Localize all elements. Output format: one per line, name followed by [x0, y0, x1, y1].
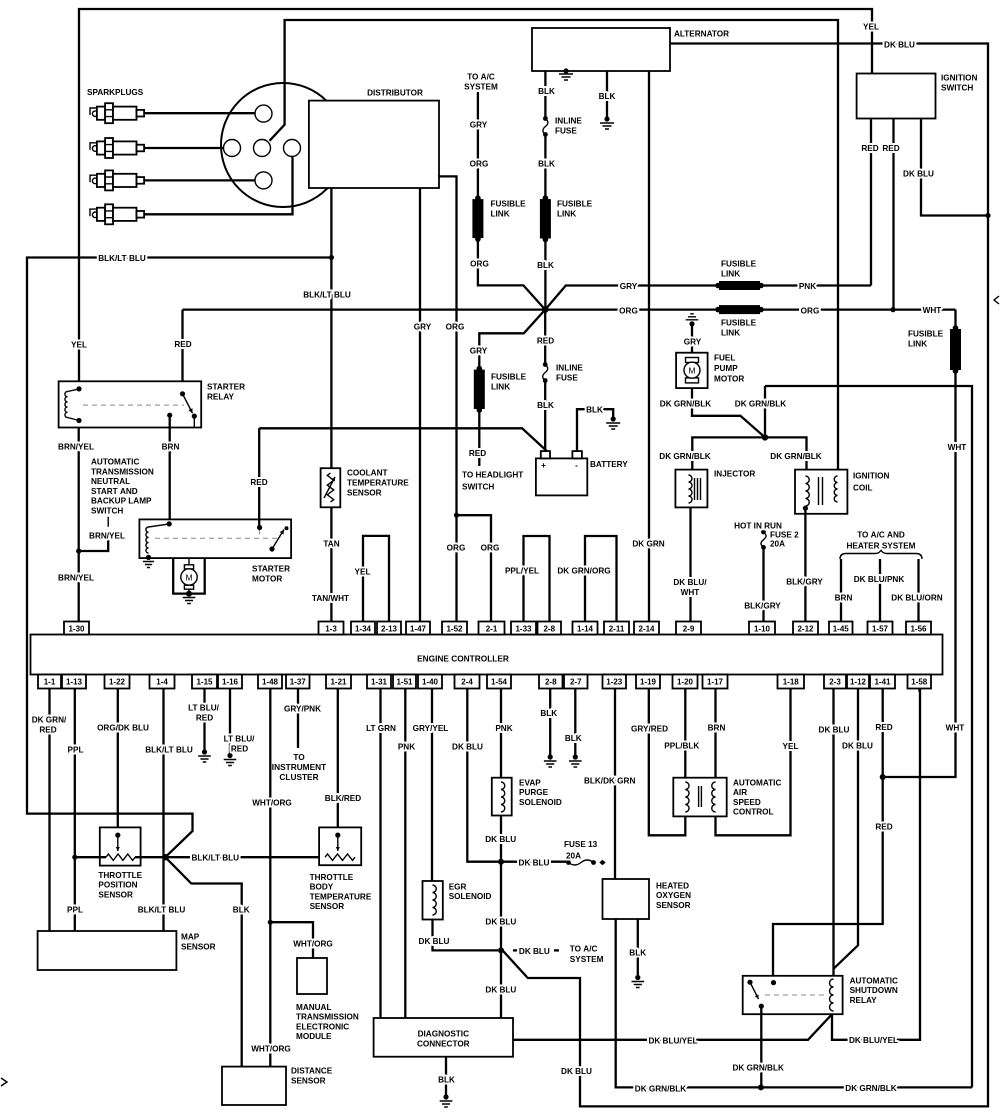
label: wire DK GRN/BLK junction to ignition coil — [770, 452, 821, 461]
label: wire BLK TPS junction to distance sensor — [233, 906, 250, 915]
label: wire BLK/LT BLU 1-4 to junction and MAP sensor — [138, 746, 193, 915]
fusible link (GRY headlight) — [474, 366, 485, 413]
label: wire RED X junction to battery positive — [537, 337, 554, 411]
wire PPL 1-13 to MAP sensor — [72, 689, 77, 932]
fusible link (PNK) — [715, 281, 764, 290]
svg-text:GRY/PNK: GRY/PNK — [284, 705, 321, 714]
svg-text:DK BLU: DK BLU — [519, 947, 550, 956]
label: wire DK BLU/WHT injector to 2-9 — [673, 578, 707, 597]
svg-text:DK GRN/: DK GRN/ — [32, 716, 67, 725]
starter relay dashed link — [83, 404, 184, 406]
svg-text:BRN/YEL: BRN/YEL — [58, 443, 94, 452]
svg-text:BLK: BLK — [537, 401, 554, 410]
svg-text:ORG: ORG — [470, 160, 489, 169]
label: wire BLK/LT BLU TPS to throttle body temp sensor — [191, 853, 239, 862]
svg-text:SOLENOID: SOLENOID — [519, 798, 562, 807]
label: wire DK BLU/PNK to 1-57 — [854, 575, 905, 584]
wire ignition coil secondary to distributor center tower — [270, 20, 839, 478]
svg-text:YEL: YEL — [863, 23, 879, 32]
svg-text:TEMPERATURE: TEMPERATURE — [347, 479, 409, 488]
label: connector pin 1-18 (bottom) — [783, 678, 800, 687]
wire DK BLU alternator to right rail and bottom to diagnostic connector — [503, 44, 988, 1107]
svg-text:1-45: 1-45 — [833, 625, 850, 634]
svg-text:1-40: 1-40 — [422, 678, 439, 687]
wire BLK/DK GRN 1-23 to heated oxygen sensor — [614, 689, 616, 880]
wire BLK oxygen sensor to ground — [637, 919, 639, 975]
svg-text:DK BLU: DK BLU — [419, 937, 450, 946]
svg-text:2-12: 2-12 — [797, 625, 814, 634]
svg-text:LINK: LINK — [908, 340, 927, 349]
diagnostic connector — [374, 1018, 513, 1057]
svg-text:FUSE: FUSE — [556, 374, 578, 383]
injector — [675, 470, 707, 508]
svg-text:RED: RED — [196, 714, 213, 723]
svg-text:RED: RED — [174, 340, 191, 349]
connector pin 1-45 (top) — [829, 622, 853, 635]
label: ignition coil — [853, 472, 889, 493]
svg-text:AUTOMATIC: AUTOMATIC — [733, 779, 781, 788]
svg-text:1-30: 1-30 — [68, 625, 85, 634]
label: wire GRY diagonal down to headlight fusible link — [462, 347, 523, 492]
svg-text:BLK: BLK — [537, 261, 554, 270]
label: starter motor body — [185, 573, 192, 583]
svg-text:YEL: YEL — [355, 568, 371, 577]
connector pin 1-57 (top) — [868, 622, 893, 635]
svg-text:M: M — [185, 573, 192, 583]
svg-text:EVAP: EVAP — [519, 779, 541, 788]
label: wire DK BLU junction down to A/C junction — [485, 918, 516, 927]
label: wire DK GRN/BLK bottom line to heated oxygen sensor — [635, 1084, 897, 1094]
label: throttle body temperature sensor — [310, 873, 372, 911]
wire DK BLU/ORN to 1-56 — [917, 559, 919, 622]
label: wire WHT/ORG 1-48 to distance sensor — [251, 799, 292, 1054]
svg-text:DK BLU/: DK BLU/ — [673, 578, 707, 587]
label: connector pin 1-19 (bottom) — [640, 678, 657, 687]
svg-text:SOLENOID: SOLENOID — [449, 892, 492, 901]
wire BRN starter relay to starter motor — [169, 415, 171, 524]
label: connector pin 1-54 (bottom) — [491, 678, 508, 687]
svg-text:ORG: ORG — [619, 307, 638, 316]
svg-text:DK GRN/BLK: DK GRN/BLK — [845, 1084, 896, 1093]
label: wire WHT fusible link down right side to 1-41 RED junction — [946, 443, 967, 733]
label: map sensor — [181, 933, 216, 952]
label: wire ORG distributor to 1-52 and 2-1 — [446, 323, 500, 553]
wire DK GRN/BLK junction to injector — [692, 437, 765, 469]
label: wire RED to starter relay switch — [174, 340, 191, 349]
label: wire DK BLU/YEL diagnostic connector to automatic shutdown relay — [648, 1036, 898, 1046]
svg-text:BLK: BLK — [538, 87, 555, 96]
svg-text:PNK: PNK — [799, 282, 816, 291]
svg-text:AIR: AIR — [733, 788, 747, 797]
label: fuse 13 — [519, 840, 598, 868]
svg-text:HEATER SYSTEM: HEATER SYSTEM — [847, 542, 916, 551]
label: connector pin 1-3 (top) — [325, 625, 337, 634]
label: inline fuse (battery feed) — [556, 364, 583, 383]
label: wire LT BLU/RED 1-16 to ground — [224, 735, 255, 754]
label: wire YEL 1-18 to air speed control — [783, 742, 799, 751]
svg-text:SENSOR: SENSOR — [310, 902, 345, 911]
label: wire BRN 1-17 to air speed control — [708, 724, 726, 733]
svg-text:1-15: 1-15 — [196, 678, 213, 687]
node DK BLU fuse13 junction — [498, 859, 504, 865]
svg-text:1-31: 1-31 — [371, 678, 388, 687]
wire DK BLU 2-3 to shutdown relay coil — [832, 689, 834, 981]
connector pin 1-22 (bottom) — [105, 675, 130, 689]
wire DK GRN/ORG bridge 1-14 2-11 — [585, 536, 617, 622]
wire YEL 1-18 to air speed control — [716, 689, 791, 836]
wire BLK/LT BLU distributor to coolant sensor and 1-3 — [329, 188, 334, 622]
label: wire LT GRN 1-31 to diagnostic connector — [366, 724, 396, 733]
ground alternator BLK — [600, 116, 614, 129]
svg-text:2-11: 2-11 — [609, 625, 625, 634]
svg-text:BRN: BRN — [708, 724, 726, 733]
label: connector pin 2-13 (top) — [381, 625, 398, 634]
wire GRY/RED 1-19 to air speed control — [649, 689, 686, 836]
svg-text:SENSOR: SENSOR — [181, 943, 216, 952]
svg-text:COIL: COIL — [853, 484, 873, 493]
label: connector pin 1-30 (top) — [68, 625, 85, 634]
svg-text:DK BLU: DK BLU — [903, 170, 934, 179]
svg-text:2-13: 2-13 — [381, 625, 398, 634]
svg-text:BRN: BRN — [835, 594, 853, 603]
svg-text:DK BLU: DK BLU — [452, 743, 483, 752]
to A/C and heater system bracket — [840, 550, 922, 560]
label: wire BLK/GRY fuse 2 to 1-10 — [744, 602, 781, 611]
label: wire BLK oxygen sensor to ground — [629, 949, 646, 958]
label: wire ORG/DK BLU 1-22 to TPS wiper — [97, 724, 149, 733]
svg-text:HOT IN RUN: HOT IN RUN — [734, 522, 782, 531]
svg-text:INSTRUMENT: INSTRUMENT — [272, 762, 326, 772]
svg-text:FUSE 13: FUSE 13 — [564, 840, 598, 849]
label: connector pin 1-4 (bottom) — [156, 678, 168, 687]
svg-text:2-4: 2-4 — [461, 678, 473, 687]
svg-text:DK GRN/BLK: DK GRN/BLK — [735, 400, 786, 409]
label: wire BLK/LT BLU branch to left rail — [98, 254, 146, 263]
svg-text:HEATED: HEATED — [656, 882, 689, 891]
edge mark right — [994, 296, 999, 304]
label: wire DK BLU 2-3 to shutdown relay coil — [819, 726, 850, 735]
label: wire BLK 2-7 to ground — [565, 734, 582, 743]
label: starter motor box — [252, 565, 290, 584]
svg-text:WHT/ORG: WHT/ORG — [293, 940, 333, 949]
wire ORG/DK BLU 1-22 to TPS wiper — [117, 689, 119, 836]
svg-text:DK BLU: DK BLU — [519, 859, 550, 868]
label: wire BLK battery negative to ground — [586, 406, 603, 415]
svg-text:1-52: 1-52 — [446, 625, 463, 634]
svg-text:SYSTEM: SYSTEM — [570, 955, 604, 964]
fusible link (ORG) — [715, 305, 764, 314]
wire GRY fuel pump ground — [691, 326, 693, 353]
label: wire PPL/YEL bridge 1-33 2-8 — [505, 567, 539, 576]
svg-text:WHT: WHT — [948, 443, 967, 452]
connector pin 2-8 (top) — [538, 622, 562, 635]
label: wire GRY diagonal branch up to A/C system — [464, 73, 498, 269]
svg-text:LINK: LINK — [557, 210, 576, 219]
label: wire DK BLU EGR to A/C junction — [419, 937, 450, 946]
svg-text:BACKUP LAMP: BACKUP LAMP — [91, 497, 152, 506]
wire DK BLU junction down to A/C junction — [500, 862, 502, 951]
fusible link (BLK) — [540, 195, 551, 242]
svg-text:TO A/C AND: TO A/C AND — [857, 531, 905, 540]
label: wire PPL/BLK 1-20 to air speed control — [664, 742, 699, 751]
svg-text:AUTOMATIC: AUTOMATIC — [91, 458, 139, 467]
connector pin 1-54 (bottom) — [487, 675, 511, 689]
label: wire GRY/PNK 1-37 to instrument cluster — [272, 705, 326, 783]
svg-text:DISTANCE: DISTANCE — [291, 1067, 333, 1076]
connector pin 1-13 (bottom) — [62, 675, 86, 689]
svg-text:TEMPERATURE: TEMPERATURE — [310, 892, 372, 901]
svg-text:1-47: 1-47 — [410, 625, 427, 634]
label: automatic transmission neutral start switch stub — [89, 458, 154, 541]
ground alternator — [559, 68, 573, 80]
svg-text:RED: RED — [875, 823, 892, 832]
svg-text:FUSIBLE: FUSIBLE — [721, 260, 757, 269]
connector pin 1-34 (top) — [351, 622, 375, 635]
svg-text:RED: RED — [231, 745, 248, 754]
svg-text:RED: RED — [882, 144, 899, 153]
svg-text:MODULE: MODULE — [296, 1032, 332, 1041]
svg-text:PPL: PPL — [68, 746, 84, 755]
svg-text:DK BLU: DK BLU — [819, 726, 850, 735]
svg-text:DK GRN/BLK: DK GRN/BLK — [770, 452, 821, 461]
svg-text:2-9: 2-9 — [683, 625, 695, 634]
svg-text:FUSIBLE: FUSIBLE — [491, 200, 527, 209]
svg-text:BLK: BLK — [438, 1076, 455, 1085]
label: node DK GRN/BLK junction — [735, 400, 786, 409]
svg-text:MOTOR: MOTOR — [252, 575, 282, 584]
svg-text:2-1: 2-1 — [486, 625, 498, 634]
svg-text:THROTTLE: THROTTLE — [98, 871, 142, 880]
label: wire RED battery to starter motor switch — [250, 478, 267, 487]
wire PPL/BLK 1-20 to air speed control — [684, 689, 686, 783]
distributor tower bottom — [255, 172, 272, 189]
svg-text:PNK: PNK — [495, 724, 512, 733]
svg-text:START AND: START AND — [91, 487, 138, 496]
svg-text:WHT: WHT — [681, 588, 700, 597]
wire battery positive feed — [259, 428, 547, 451]
svg-text:DK BLU: DK BLU — [485, 986, 516, 995]
svg-text:TO A/C: TO A/C — [570, 945, 598, 954]
label: connector pin 2-11 (top) — [609, 625, 625, 634]
wire BLK/LT BLU branch to left rail — [27, 258, 331, 858]
svg-text:TAN: TAN — [323, 540, 339, 549]
wire BRN to 1-45 — [840, 559, 842, 622]
svg-text:DK GRN/BLK: DK GRN/BLK — [732, 1064, 783, 1073]
svg-text:DK GRN/BLK: DK GRN/BLK — [660, 400, 711, 409]
connector pin 2-9 (top) — [676, 622, 701, 635]
svg-text:INJECTOR: INJECTOR — [714, 470, 755, 479]
svg-text:1-54: 1-54 — [491, 678, 508, 687]
svg-text:INLINE: INLINE — [555, 117, 582, 126]
label: connector pin 2-1 (top) — [486, 625, 498, 634]
svg-text:2-3: 2-3 — [829, 678, 841, 687]
label: fusible link (WHT right side) — [908, 330, 944, 349]
svg-text:FUSIBLE: FUSIBLE — [491, 373, 527, 382]
svg-text:DK BLU/YEL: DK BLU/YEL — [648, 1037, 697, 1046]
inline fuse (battery feed) — [543, 362, 548, 383]
starter motor dashed link — [155, 529, 277, 538]
svg-text:BODY: BODY — [310, 883, 334, 892]
svg-text:ORG/DK BLU: ORG/DK BLU — [97, 724, 149, 733]
distributor tower top — [255, 105, 272, 122]
svg-text:SENSOR: SENSOR — [98, 890, 133, 899]
svg-text:1-23: 1-23 — [606, 678, 623, 687]
wire BLK alternator to ground — [606, 71, 608, 117]
label: wire RED 1-41 to shutdown relay switch — [875, 723, 892, 832]
connector pin 1-15 (bottom) — [192, 675, 217, 689]
svg-text:LT BLU/: LT BLU/ — [224, 735, 255, 744]
label: distributor body — [367, 89, 423, 98]
svg-text:1-17: 1-17 — [707, 678, 724, 687]
label: wire DK GRN/ORG bridge 1-14 2-11 — [557, 567, 610, 576]
connector pin 1-40 (bottom) — [418, 675, 442, 689]
fusible link (WHT right side) — [950, 325, 961, 374]
svg-text:GRY/RED: GRY/RED — [631, 725, 668, 734]
svg-text:WHT: WHT — [923, 306, 942, 315]
svg-text:WHT/ORG: WHT/ORG — [252, 799, 292, 808]
svg-text:1-37: 1-37 — [290, 678, 307, 687]
svg-text:M: M — [688, 366, 695, 376]
svg-text:1-22: 1-22 — [109, 678, 126, 687]
svg-text:ORG: ORG — [447, 544, 466, 553]
connector pin 1-12 (bottom) — [847, 675, 869, 689]
svg-text:1-16: 1-16 — [222, 678, 239, 687]
svg-text:BLK: BLK — [565, 734, 582, 743]
svg-text:-: - — [575, 460, 578, 470]
wire WHT fusible link down right side to 1-41 RED junction — [883, 310, 956, 777]
distributor tower center — [254, 140, 271, 157]
svg-text:SHUTDOWN: SHUTDOWN — [850, 986, 898, 995]
svg-text:1-33: 1-33 — [515, 625, 532, 634]
wire DK BLU/YEL diagnostic connector to automatic shutdown relay — [512, 689, 920, 1040]
svg-text:STARTER: STARTER — [207, 383, 245, 392]
wire BRN/YEL starter relay to 1-30 — [76, 428, 81, 622]
svg-text:OXYGEN: OXYGEN — [656, 891, 691, 900]
starter motor body — [173, 558, 205, 594]
label: wire YEL ignition-switch to starter relay (top/left border) — [71, 23, 879, 350]
label: wire BLK/LT BLU distributor to coolant sensor and 1-3 — [303, 291, 351, 604]
wire RED ignition switch to ORG line — [890, 119, 895, 313]
svg-text:ELECTRONIC: ELECTRONIC — [296, 1022, 349, 1031]
label: node DK BLU A/C junction — [519, 945, 604, 965]
starter relay box — [59, 381, 202, 427]
connector pin 1-48 (bottom) — [258, 675, 282, 689]
connector pin 1-21 (bottom) — [326, 675, 351, 689]
wire YEL bridge 1-34 2-13 — [363, 536, 389, 622]
label: connector pin 1-58 (bottom) — [911, 678, 928, 687]
label: connector pin 1-34 (top) — [355, 625, 372, 634]
alternator box — [532, 28, 670, 71]
label: to A/C and heater system bracket — [847, 531, 916, 551]
label: distance sensor — [291, 1067, 333, 1086]
automatic air speed control — [673, 778, 726, 817]
label: wire PNK 1-51 to diagnostic connector — [398, 743, 415, 752]
connector pin 2-3 (bottom) — [824, 675, 846, 689]
distributor tower left — [224, 140, 241, 157]
wire sparkplug3 to distributor tower — [144, 179, 255, 181]
node DK BLU A/C junction — [498, 947, 559, 953]
svg-text:TO: TO — [293, 752, 305, 762]
svg-text:+: + — [541, 460, 546, 470]
svg-text:1-41: 1-41 — [874, 678, 891, 687]
svg-text:SENSOR: SENSOR — [291, 1077, 326, 1086]
svg-text:RED: RED — [469, 449, 486, 458]
wire GRY/YEL 1-40 to EGR solenoid — [431, 689, 433, 882]
svg-text:CONTROL: CONTROL — [733, 808, 773, 817]
wire TPS left terminal — [75, 856, 106, 858]
svg-text:1-10: 1-10 — [754, 625, 771, 634]
fuse 13 — [501, 860, 606, 866]
svg-text:RELAY: RELAY — [207, 393, 235, 402]
automatic shutdown relay box — [743, 976, 843, 1014]
wire GRY diagonal down to headlight fusible link — [479, 310, 545, 466]
svg-text:BLK/GRY: BLK/GRY — [744, 602, 781, 611]
label: alternator box — [674, 30, 729, 39]
label: wire DK BLU 1-12 to shutdown relay coil — [842, 742, 873, 751]
ignition switch box — [857, 74, 936, 119]
svg-text:1-20: 1-20 — [677, 678, 694, 687]
label: connector pin 2-14 (top) — [638, 625, 655, 634]
svg-text:DIAGNOSTIC: DIAGNOSTIC — [418, 1030, 469, 1039]
automatic transmission neutral start switch stub — [79, 517, 109, 551]
label: wire BLK/DK GRN 1-23 to heated oxygen sensor — [584, 777, 635, 786]
svg-text:BLK/LT BLU: BLK/LT BLU — [138, 906, 186, 915]
wire DK BLU EVAP to junction — [500, 816, 502, 862]
wire BLK/RED 1-21 to throttle body temp sensor — [337, 689, 339, 836]
svg-text:LINK: LINK — [721, 329, 740, 338]
svg-text:YEL: YEL — [71, 341, 87, 350]
connector pin 2-1 (top) — [479, 622, 505, 635]
connector pin 1-14 (top) — [573, 622, 598, 635]
sparkplug 1 — [90, 103, 144, 123]
svg-text:PPL: PPL — [67, 906, 83, 915]
label: connector pin 1-47 (top) — [410, 625, 427, 634]
svg-text:PPL/YEL: PPL/YEL — [505, 567, 539, 576]
wire 1-58 stub — [918, 689, 920, 693]
wire RED X junction to battery positive — [544, 310, 546, 452]
svg-text:PNK: PNK — [398, 743, 415, 752]
svg-text:TRANSMISSION: TRANSMISSION — [91, 467, 154, 476]
label: wire WHT/ORG branch to manual transmission module — [293, 940, 333, 949]
wire DK GRN alternator to 2-14 — [648, 71, 650, 622]
wire LT BLU/RED 1-16 to ground — [229, 689, 231, 754]
svg-text:BLK: BLK — [538, 160, 555, 169]
engine controller box — [31, 635, 943, 675]
label: wire BLK 2-8 to ground — [540, 709, 557, 718]
svg-text:BLK/LT BLU: BLK/LT BLU — [303, 291, 351, 300]
throttle position sensor — [100, 827, 141, 865]
svg-text:DK BLU/YEL: DK BLU/YEL — [849, 1036, 898, 1045]
svg-text:BLK: BLK — [629, 949, 646, 958]
svg-text:1-4: 1-4 — [156, 678, 168, 687]
label: wire BLK alternator to ground — [599, 92, 616, 101]
ground oxygen sensor — [632, 975, 645, 988]
svg-text:SYSTEM: SYSTEM — [464, 83, 498, 92]
connector pin 1-33 (top) — [511, 622, 536, 635]
svg-text:1-48: 1-48 — [262, 678, 279, 687]
svg-text:TAN/WHT: TAN/WHT — [312, 594, 349, 603]
svg-text:LINK: LINK — [721, 270, 740, 279]
starter motor coil — [146, 521, 172, 560]
connector pin 1-37 (bottom) — [286, 675, 310, 689]
svg-text:GRY: GRY — [470, 121, 488, 130]
label: wire BRN/YEL starter relay to 1-30 — [58, 443, 94, 583]
label: connector pin 1-1 (bottom) — [44, 678, 56, 687]
edge mark left — [1, 1078, 7, 1086]
svg-text:SWITCH: SWITCH — [462, 483, 494, 492]
label: connector pin 2-8 (bottom) — [545, 678, 557, 687]
svg-text:FUSIBLE: FUSIBLE — [908, 330, 944, 339]
